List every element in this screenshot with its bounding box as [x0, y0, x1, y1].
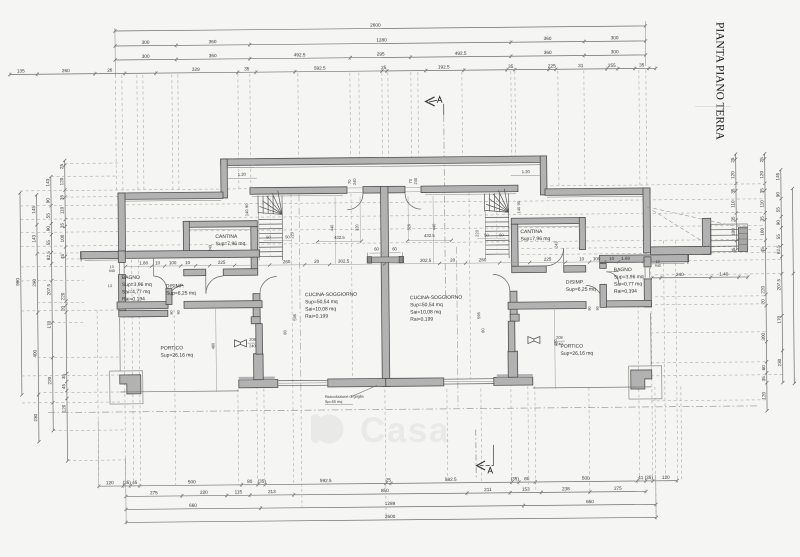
svg-text:80: 80	[247, 479, 253, 484]
svg-text:CUCINA-SOGGIORNO: CUCINA-SOGGIORNO	[305, 292, 357, 299]
svg-text:500: 500	[582, 476, 590, 481]
svg-text:238: 238	[562, 486, 570, 491]
svg-text:300: 300	[142, 40, 150, 45]
svg-text:240: 240	[249, 344, 255, 348]
svg-text:940: 940	[109, 269, 115, 273]
svg-text:140: 140	[516, 206, 521, 213]
svg-text:320: 320	[354, 224, 359, 231]
svg-text:1.20: 1.20	[238, 172, 247, 177]
svg-text:120: 120	[59, 177, 64, 185]
svg-text:Sup=26,16 mq: Sup=26,16 mq	[161, 352, 194, 358]
svg-text:220: 220	[47, 376, 52, 384]
svg-text:90: 90	[46, 226, 51, 232]
svg-text:225: 225	[218, 260, 226, 265]
svg-text:Rai=0,194: Rai=0,194	[122, 296, 145, 302]
svg-text:Sup=3,96 mq: Sup=3,96 mq	[122, 282, 152, 288]
svg-text:26: 26	[107, 68, 113, 73]
svg-text:Sp=55 mq: Sp=55 mq	[325, 400, 342, 404]
svg-text:35: 35	[760, 216, 765, 222]
svg-text:230: 230	[777, 358, 782, 366]
svg-text:110: 110	[730, 200, 735, 208]
svg-text:440: 440	[431, 223, 436, 230]
svg-text:80: 80	[588, 306, 592, 310]
svg-text:20: 20	[450, 258, 456, 263]
svg-text:10: 10	[579, 256, 585, 261]
svg-text:145: 145	[31, 206, 36, 214]
svg-text:223: 223	[474, 229, 479, 236]
svg-text:400: 400	[32, 350, 37, 358]
svg-text:290: 290	[32, 279, 37, 287]
svg-text:243: 243	[207, 244, 212, 251]
svg-text:55: 55	[46, 240, 51, 246]
svg-text:213: 213	[268, 489, 276, 494]
svg-text:35: 35	[59, 195, 64, 201]
svg-text:100: 100	[760, 228, 765, 236]
svg-text:BAGNO: BAGNO	[122, 275, 140, 281]
svg-text:CANTINA: CANTINA	[520, 229, 543, 235]
svg-text:20: 20	[314, 259, 320, 264]
svg-text:10: 10	[155, 260, 161, 265]
svg-text:940: 940	[655, 264, 661, 268]
svg-text:300: 300	[611, 49, 619, 54]
svg-text:(35): (35)	[258, 479, 267, 484]
svg-text:(35): (35)	[645, 475, 654, 480]
svg-text:492.5: 492.5	[294, 52, 306, 57]
svg-text:Sup=50,54 mq: Sup=50,54 mq	[305, 299, 338, 305]
svg-text:302.5: 302.5	[338, 259, 350, 264]
svg-text:25: 25	[59, 164, 64, 170]
svg-text:432.5: 432.5	[424, 233, 435, 238]
svg-text:45: 45	[61, 384, 66, 390]
svg-text:PIANTA PIANO TERRA: PIANTA PIANO TERRA	[714, 22, 726, 141]
svg-text:55: 55	[776, 234, 781, 240]
svg-text:DISIMP.: DISIMP.	[166, 283, 184, 289]
svg-text:480: 480	[210, 342, 215, 349]
svg-text:850: 850	[381, 488, 389, 493]
svg-text:Sup=6,25 mq: Sup=6,25 mq	[566, 287, 596, 293]
svg-text:1.20: 1.20	[522, 169, 531, 174]
svg-text:595: 595	[476, 311, 481, 318]
svg-text:145: 145	[775, 172, 780, 180]
svg-text:120: 120	[761, 392, 766, 400]
svg-text:220: 220	[760, 286, 765, 294]
svg-text:480: 480	[553, 339, 558, 346]
svg-text:990: 990	[15, 278, 20, 286]
svg-text:360: 360	[544, 36, 552, 41]
svg-text:220: 220	[200, 490, 208, 495]
svg-text:DISIMP.: DISIMP.	[566, 280, 584, 286]
svg-text:492.5: 492.5	[455, 51, 467, 56]
svg-text:CUCINA-SOGGIORNO: CUCINA-SOGGIORNO	[410, 295, 462, 302]
svg-text:Rai=0,199: Rai=0,199	[305, 314, 328, 320]
svg-text:100: 100	[593, 256, 601, 261]
svg-text:260: 260	[283, 259, 291, 264]
svg-text:35: 35	[759, 188, 764, 194]
svg-text:243: 243	[553, 241, 558, 248]
svg-text:260: 260	[62, 68, 70, 73]
svg-text:35: 35	[60, 223, 65, 229]
svg-text:Sup=7,96 mq: Sup=7,96 mq	[520, 236, 550, 242]
svg-text:10: 10	[185, 260, 191, 265]
svg-text:120: 120	[759, 171, 764, 179]
svg-text:45: 45	[760, 247, 765, 253]
svg-text:240: 240	[352, 178, 357, 185]
svg-text:300: 300	[142, 54, 150, 59]
svg-text:650: 650	[586, 499, 594, 504]
svg-text:35: 35	[731, 216, 736, 222]
svg-text:Rai=0,394: Rai=0,394	[614, 289, 637, 295]
svg-text:595: 595	[292, 313, 297, 320]
svg-text:25: 25	[386, 477, 392, 482]
svg-text:440: 440	[329, 224, 334, 231]
svg-text:115: 115	[235, 489, 243, 494]
svg-text:Casa: Casa	[360, 411, 450, 450]
svg-text:220: 220	[60, 292, 65, 300]
svg-text:PORTICO: PORTICO	[160, 345, 183, 351]
svg-text:208: 208	[556, 336, 562, 340]
svg-text:208: 208	[249, 338, 255, 342]
svg-text:13: 13	[110, 265, 114, 269]
svg-text:41: 41	[638, 475, 644, 480]
svg-text:2600: 2600	[370, 23, 381, 28]
svg-text:1289: 1289	[385, 501, 396, 506]
svg-text:90: 90	[45, 198, 50, 204]
svg-text:80: 80	[596, 306, 600, 310]
svg-text:Sup=7,96 mq: Sup=7,96 mq	[215, 241, 245, 247]
svg-text:432.5: 432.5	[334, 235, 345, 240]
svg-text:1.88: 1.88	[139, 261, 148, 266]
svg-text:592.5: 592.5	[445, 477, 457, 482]
svg-text:143: 143	[31, 235, 36, 243]
svg-text:110: 110	[759, 200, 764, 208]
svg-text:170: 170	[777, 315, 782, 323]
svg-text:295: 295	[377, 52, 385, 57]
svg-text:1.88: 1.88	[621, 256, 630, 261]
svg-text:35: 35	[244, 66, 250, 71]
svg-text:240: 240	[413, 177, 418, 184]
svg-text:1.40: 1.40	[719, 272, 729, 277]
svg-text:(35): (35)	[123, 480, 132, 485]
svg-text:329: 329	[192, 67, 200, 72]
svg-text:100: 100	[60, 234, 65, 242]
svg-text:Rai=0,199: Rai=0,199	[410, 317, 433, 323]
svg-text:223: 223	[289, 231, 294, 238]
svg-text:45: 45	[132, 480, 138, 485]
svg-text:120: 120	[106, 480, 114, 485]
svg-text:80: 80	[177, 310, 181, 314]
svg-text:55: 55	[776, 207, 781, 213]
svg-text:Sup=3,96 mq: Sup=3,96 mq	[614, 274, 644, 280]
svg-text:35: 35	[61, 374, 66, 380]
svg-text:55: 55	[46, 213, 51, 219]
svg-text:82.5: 82.5	[46, 251, 51, 260]
svg-text:360: 360	[209, 53, 217, 58]
svg-text:225: 225	[544, 257, 552, 262]
svg-text:100: 100	[169, 260, 177, 265]
svg-text:80: 80	[170, 310, 174, 314]
svg-text:Sai=0,77 mq: Sai=0,77 mq	[614, 281, 642, 287]
svg-text:90: 90	[776, 220, 781, 226]
svg-text:Sai=4,77 mq: Sai=4,77 mq	[122, 289, 150, 295]
svg-text:120: 120	[61, 404, 66, 412]
svg-text:CANTINA: CANTINA	[215, 234, 238, 240]
svg-text:592.5: 592.5	[320, 478, 332, 483]
svg-text:31: 31	[578, 63, 584, 68]
svg-text:Sup=6,25 mq: Sup=6,25 mq	[166, 290, 196, 296]
svg-text:35: 35	[508, 64, 514, 69]
svg-text:100: 100	[731, 228, 736, 236]
svg-text:360: 360	[544, 50, 552, 55]
svg-text:320: 320	[406, 223, 411, 230]
svg-text:Sup=26,16 mq: Sup=26,16 mq	[561, 351, 594, 357]
svg-text:Sai=10,08 mq: Sai=10,08 mq	[305, 306, 336, 312]
svg-text:PORTICO: PORTICO	[560, 344, 583, 350]
svg-text:35: 35	[639, 63, 645, 68]
svg-text:60: 60	[374, 246, 379, 251]
svg-text:10: 10	[609, 256, 615, 261]
svg-text:BAGNO: BAGNO	[614, 267, 632, 273]
svg-text:Sai=10,08 mq: Sai=10,08 mq	[410, 309, 441, 315]
svg-text:35: 35	[761, 376, 766, 382]
svg-text:120: 120	[730, 171, 735, 179]
svg-text:Sup=50,54 mq: Sup=50,54 mq	[410, 302, 443, 308]
svg-text:500: 500	[188, 479, 196, 484]
svg-text:192.5: 192.5	[438, 64, 450, 69]
svg-text:140: 140	[244, 209, 249, 216]
svg-text:360: 360	[209, 39, 217, 44]
svg-text:45: 45	[60, 254, 65, 260]
svg-text:225: 225	[548, 63, 556, 68]
svg-text:275: 275	[614, 486, 622, 491]
svg-text:240: 240	[676, 272, 684, 277]
svg-text:2600: 2600	[385, 514, 396, 519]
svg-text:300: 300	[761, 333, 766, 341]
svg-text:211: 211	[484, 487, 492, 492]
svg-text:302.5: 302.5	[420, 258, 432, 263]
svg-text:Ricircolazione di griglia: Ricircolazione di griglia	[325, 395, 365, 399]
svg-text:13: 13	[656, 260, 660, 264]
svg-text:592.5: 592.5	[314, 66, 326, 71]
svg-text:255: 255	[608, 63, 616, 68]
svg-text:13: 13	[108, 284, 112, 288]
svg-text:1280: 1280	[376, 38, 387, 43]
svg-text:230: 230	[33, 414, 38, 422]
svg-text:170: 170	[47, 320, 52, 328]
svg-text:660: 660	[189, 503, 197, 508]
svg-text:207.5: 207.5	[46, 283, 51, 295]
svg-text:35: 35	[730, 188, 735, 194]
svg-text:60: 60	[761, 365, 766, 371]
svg-text:300: 300	[611, 35, 619, 40]
svg-text:275: 275	[150, 490, 158, 495]
svg-text:90: 90	[775, 192, 780, 198]
svg-text:260: 260	[479, 257, 487, 262]
svg-text:207.5: 207.5	[776, 278, 781, 290]
svg-text:110: 110	[59, 206, 64, 214]
svg-text:143: 143	[45, 178, 50, 186]
svg-text:25: 25	[730, 157, 735, 163]
svg-text:25: 25	[381, 65, 387, 70]
svg-text:135: 135	[17, 68, 25, 73]
svg-text:25: 25	[759, 157, 764, 163]
svg-text:60: 60	[392, 246, 397, 251]
